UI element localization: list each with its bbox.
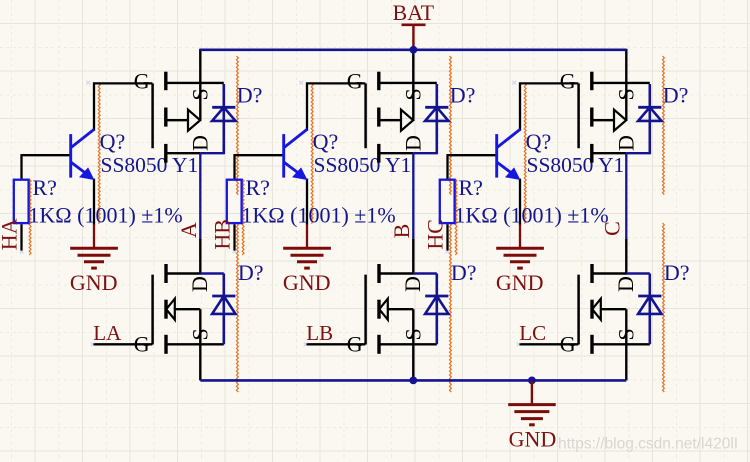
wire: transistor collector to high-side gate (C phase) [520, 83, 578, 130]
wire: drain to diode (A phase, low side, navy) [200, 272, 224, 274]
junction: ground tap at bottom bus [528, 377, 536, 385]
transistor Q? (A phase): collector stroke [71, 129, 94, 147]
svg-text:D: D [187, 276, 212, 292]
wire: low-side gate wire from LB [306, 343, 365, 345]
svg-text:D: D [613, 276, 638, 292]
low-side MOSFET (A phase): source pin to bottom bus [199, 344, 201, 380]
svg-text:D: D [188, 135, 213, 151]
wire: low-side MOSFET drain pin (black segment) [412, 238, 414, 274]
low-side MOSFET (B phase): source-body tie [412, 309, 414, 344]
svg-text:GND: GND [283, 270, 331, 295]
svg-text:GND: GND [496, 270, 544, 295]
transistor Q? (A phase): emitter arrowhead [80, 168, 94, 179]
diode D? (A phase, high side) [212, 84, 235, 154]
wire: resistor R top connection (C phase) [446, 154, 448, 179]
orange compile-mark squiggle on resistor B right edge [242, 179, 244, 255]
low-side MOSFET (B phase): drain pin line [379, 272, 413, 274]
ground symbol GND at bottom bus [508, 381, 556, 425]
wire: transistor emitter to GND (B phase) [306, 179, 308, 225]
low-side MOSFET (A phase): source-body tie [199, 309, 201, 344]
wire: low-side gate wire from LC [519, 343, 578, 345]
low-side MOSFET (A phase): body arrow (open, pointing left) [166, 299, 175, 320]
power port BAT: stem and bar [402, 25, 426, 49]
svg-text:D?: D? [450, 82, 476, 107]
orange compile-mark squiggle on transistor B wire column [311, 83, 313, 224]
svg-text:LC: LC [519, 321, 546, 345]
high-side MOSFET (C phase): body arrow (open, pointing right) [614, 110, 626, 131]
svg-text:Q?: Q? [313, 129, 339, 154]
high-side MOSFET (A phase): channel segments [164, 72, 167, 163]
transistor Q? (C phase): emitter stroke [497, 162, 517, 177]
wire: low-side MOSFET drain pin (black segment) [199, 238, 201, 274]
svg-text:S: S [400, 328, 425, 340]
svg-text:B: B [389, 224, 414, 239]
orange compile-mark squiggle on diode column B (upper) [450, 56, 452, 195]
svg-text:G: G [347, 332, 363, 357]
wire: phase output net B (navy segment) [412, 153, 414, 238]
wire: bottom ground bus [200, 379, 626, 382]
wire: base wire of transistor Q (C phase) [448, 154, 496, 156]
svg-text:S: S [401, 88, 426, 100]
orange compile-mark squiggle on diode column A (lower) [237, 223, 239, 392]
dangling end marker at LA wire [91, 342, 95, 346]
wire: resistor R top connection (A phase) [20, 154, 22, 179]
dangling end marker at LB wire [304, 342, 308, 346]
low-side MOSFET (C phase): source-body tie [625, 309, 627, 344]
svg-text:S: S [187, 328, 212, 340]
ground symbol GND at transistor emitter (A phase) [70, 224, 118, 268]
wire: transistor emitter to GND (C phase) [519, 179, 521, 225]
high-side MOSFET (C phase): source-body tie [625, 83, 627, 120]
transistor Q? (A phase): emitter stroke [71, 162, 91, 177]
svg-text:D?: D? [664, 260, 690, 285]
dangling end marker at HC stub [446, 250, 450, 254]
svg-text:D?: D? [663, 82, 689, 107]
orange compile-mark squiggle on diode column C (lower) [663, 223, 665, 392]
orange compile-mark squiggle on diode column A (upper) [237, 56, 239, 195]
svg-text:S: S [188, 88, 213, 100]
diode D? (C phase, high side) [638, 84, 661, 154]
high-side MOSFET (C phase): drain pin line [592, 152, 627, 154]
svg-text:G: G [560, 69, 576, 94]
svg-text:A: A [176, 222, 201, 238]
svg-text:D: D [401, 135, 426, 151]
svg-text:SS8050 Y1: SS8050 Y1 [527, 153, 625, 177]
high-side MOSFET (A phase): body arrow (open, pointing right) [188, 110, 200, 131]
high-side MOSFET (B phase): source pin to top bus [412, 49, 414, 84]
wire: transistor collector to high-side gate (A phase) [94, 83, 152, 130]
low-side MOSFET (C phase): channel segments [590, 264, 593, 354]
transistor Q? (B phase): collector stroke [284, 129, 307, 147]
svg-text:1KΩ (1001) ±1%: 1KΩ (1001) ±1% [28, 203, 182, 228]
wire: phase output net A (navy segment) [199, 153, 201, 238]
svg-text:D: D [400, 276, 425, 292]
svg-text:G: G [134, 332, 150, 357]
junction: phase B source at bottom bus [409, 377, 417, 385]
no-ERC marker at gate wire corner (A phase) [86, 81, 90, 85]
junction: BAT to top bus [410, 46, 418, 54]
low-side MOSFET (B phase): channel segments [377, 264, 380, 354]
high-side MOSFET (B phase): body arrow (open, pointing right) [401, 110, 413, 131]
high-side MOSFET (C phase): source pin line [592, 82, 650, 84]
svg-text:SS8050 Y1: SS8050 Y1 [101, 153, 199, 177]
low-side MOSFET (C phase): drain pin line [592, 272, 626, 274]
high-side MOSFET (C phase): body line [592, 119, 614, 121]
transistor Q? SS8050 (C phase): base bar [495, 134, 498, 178]
diode D? (C phase, low side) [638, 274, 661, 345]
wire: transistor emitter to GND (A phase) [93, 179, 95, 225]
resistor R? 1K (A phase) body [14, 180, 29, 223]
diode D? (A phase, low side) [212, 274, 235, 345]
svg-text:HA: HA [0, 218, 21, 250]
transistor Q? (C phase): collector stroke [497, 129, 520, 147]
orange compile-mark squiggle on resistor C right edge [455, 179, 457, 255]
svg-text:R?: R? [246, 175, 270, 200]
low-side MOSFET (C phase): gate bar [577, 275, 580, 345]
svg-text:LB: LB [306, 321, 333, 345]
low-side MOSFET (A phase): drain pin line [166, 272, 200, 274]
high-side MOSFET (A phase): gate bar [151, 83, 154, 148]
wire: low-side gate wire from LA [93, 343, 152, 345]
low-side MOSFET (B phase): body line [388, 308, 414, 310]
svg-text:S: S [614, 88, 639, 100]
svg-text:HC: HC [422, 219, 447, 250]
high-side MOSFET (C phase): gate bar [577, 83, 580, 148]
wire: resistor R bottom stub to port HB [233, 224, 235, 251]
svg-text:C: C [600, 221, 625, 236]
low-side MOSFET (A phase): channel segments [164, 264, 167, 354]
wire: drain to diode (B phase, low side, navy) [413, 272, 437, 274]
transistor Q? (B phase): emitter stroke [284, 162, 304, 177]
wire: resistor R bottom stub to port HC [446, 224, 448, 251]
orange compile-mark squiggle on resistor A right edge [29, 179, 31, 255]
svg-text:G: G [347, 69, 363, 94]
low-side MOSFET (B phase): source pin line [379, 343, 437, 345]
wire: base wire of transistor Q (A phase) [22, 154, 70, 156]
diode D? (B phase, low side) [425, 274, 448, 345]
ground symbol GND at transistor emitter (C phase) [496, 224, 544, 268]
transistor Q? (B phase): emitter arrowhead [293, 168, 307, 179]
svg-text:1KΩ (1001) ±1%: 1KΩ (1001) ±1% [454, 203, 608, 228]
low-side MOSFET (C phase): body line [601, 308, 627, 310]
svg-text:SS8050 Y1: SS8050 Y1 [314, 153, 412, 177]
svg-text:BAT: BAT [393, 0, 435, 25]
svg-text:D?: D? [238, 260, 264, 285]
svg-text:G: G [560, 332, 576, 357]
high-side MOSFET (A phase): body line [166, 119, 188, 121]
svg-text:1KΩ (1001) ±1%: 1KΩ (1001) ±1% [241, 203, 395, 228]
orange compile-mark squiggle on diode column B (lower) [450, 223, 452, 392]
high-side MOSFET (C phase): source pin to top bus [625, 49, 627, 84]
no-ERC marker at gate wire corner (C phase) [512, 81, 516, 85]
wire: base wire of transistor Q (B phase) [235, 154, 283, 156]
no-ERC marker at gate wire corner (B phase) [299, 81, 303, 85]
wire: drain to diode (C phase, high side, navy) [626, 152, 650, 154]
ground symbol GND at transistor emitter (B phase) [283, 224, 331, 268]
svg-text:R?: R? [33, 175, 57, 200]
low-side MOSFET (B phase): source pin to bottom bus [412, 344, 414, 380]
orange compile-mark squiggle on transistor C wire column [524, 83, 526, 224]
resistor R? 1K (C phase) body [440, 180, 455, 223]
svg-text:GND: GND [70, 270, 118, 295]
high-side MOSFET (A phase): source pin to top bus [199, 49, 201, 84]
wire: drain to diode (B phase, high side, navy) [413, 152, 437, 154]
transistor Q? (C phase): emitter arrowhead [506, 168, 520, 179]
svg-text:D?: D? [237, 82, 263, 107]
high-side MOSFET (B phase): body line [379, 119, 401, 121]
dangling end marker at LC wire [517, 342, 521, 346]
wire: phase output net C (navy segment) [625, 153, 627, 238]
svg-text:R?: R? [459, 175, 483, 200]
high-side MOSFET (A phase): source-body tie [199, 83, 201, 120]
orange compile-mark squiggle on transistor A wire column [98, 83, 100, 224]
wire: top BAT bus [200, 48, 627, 51]
low-side MOSFET (B phase): body arrow (open, pointing left) [379, 299, 388, 320]
svg-text:D: D [614, 135, 639, 151]
high-side MOSFET (A phase): drain pin line [166, 152, 201, 154]
high-side MOSFET (B phase): drain pin line [379, 152, 414, 154]
svg-text:D?: D? [451, 260, 477, 285]
high-side MOSFET (B phase): source pin line [379, 82, 437, 84]
low-side MOSFET (A phase): body line [175, 308, 201, 310]
low-side MOSFET (C phase): source pin to bottom bus [625, 344, 627, 380]
dangling end marker at HB stub [233, 250, 237, 254]
wire: transistor collector to high-side gate (B phase) [307, 83, 365, 130]
low-side MOSFET (A phase): source pin line [166, 343, 224, 345]
wire: resistor R bottom stub to port HA [20, 224, 22, 251]
wire: drain to diode (A phase, high side, navy) [200, 152, 224, 154]
svg-text:GND: GND [509, 426, 557, 451]
svg-text:HB: HB [209, 219, 234, 250]
wire: low-side MOSFET drain pin (black segment) [625, 238, 627, 274]
high-side MOSFET (B phase): gate bar [364, 83, 367, 148]
transistor Q? SS8050 (A phase): base bar [69, 134, 72, 178]
svg-text:https://blog.csdn.net/l420lI: https://blog.csdn.net/l420lI [558, 436, 738, 453]
dangling end marker at HA stub [20, 250, 24, 254]
wire: drain to diode (C phase, low side, navy) [626, 272, 650, 274]
orange compile-mark squiggle on diode column C (upper) [663, 56, 665, 195]
svg-text:Q?: Q? [526, 129, 552, 154]
svg-text:LA: LA [93, 321, 122, 345]
wire: resistor R top connection (B phase) [233, 154, 235, 179]
svg-text:Q?: Q? [100, 129, 126, 154]
svg-text:G: G [134, 69, 150, 94]
transistor Q? SS8050 (B phase): base bar [282, 134, 285, 178]
low-side MOSFET (C phase): body arrow (open, pointing left) [592, 299, 601, 320]
high-side MOSFET (B phase): source-body tie [412, 83, 414, 120]
svg-text:S: S [613, 328, 638, 340]
low-side MOSFET (A phase): gate bar [151, 275, 154, 345]
high-side MOSFET (C phase): channel segments [590, 72, 593, 163]
high-side MOSFET (A phase): source pin line [166, 82, 224, 84]
low-side MOSFET (B phase): gate bar [364, 275, 367, 345]
resistor R? 1K (B phase) body [227, 180, 242, 223]
high-side MOSFET (B phase): channel segments [377, 72, 380, 163]
diode D? (B phase, high side) [425, 84, 448, 154]
low-side MOSFET (C phase): source pin line [592, 343, 650, 345]
